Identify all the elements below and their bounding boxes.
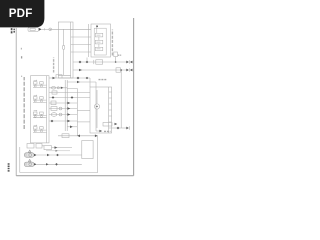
wire drop into motor box xyxy=(89,78,91,87)
wire y114.5 xyxy=(49,114,77,116)
label right of RB (vertical) xyxy=(111,30,113,56)
splice S1 xyxy=(49,28,52,31)
vertical drop right xyxy=(120,70,122,128)
wire y128 MB to border xyxy=(112,127,127,129)
arrow into wire xyxy=(39,28,42,31)
box B2 xyxy=(82,141,93,159)
ECU driver group 2 xyxy=(33,95,47,103)
ECU driver group 3 xyxy=(33,110,47,118)
connector pair CN2 xyxy=(126,69,129,72)
tick marks left margin xyxy=(20,48,22,50)
wire W7 y78 xyxy=(49,77,90,79)
micro text marks (shape-based to avoid subpixel fringing) xyxy=(9,28,122,172)
text near y131 xyxy=(104,130,111,132)
wire y82 xyxy=(67,81,96,83)
mid bus pair xyxy=(65,80,67,131)
border frame bottom xyxy=(16,175,133,177)
jog on W7 xyxy=(56,75,62,78)
wire main feed xyxy=(42,28,49,30)
ECU driver group 1 xyxy=(33,80,47,88)
component on W6 xyxy=(116,68,121,72)
component on W5 xyxy=(93,60,95,64)
connector C1 xyxy=(28,27,39,31)
relay box RB xyxy=(91,24,111,57)
ECU driver group 4 xyxy=(33,125,47,133)
page background xyxy=(0,0,149,198)
wires JB to relay box xyxy=(73,37,89,52)
dark label top-left under badge xyxy=(11,28,13,34)
wire y108 xyxy=(49,108,77,110)
diamond node xyxy=(79,61,82,64)
jog bus to mid vertical xyxy=(67,88,77,135)
border frame left xyxy=(15,28,17,176)
wire y121 xyxy=(49,120,77,122)
text near w7 xyxy=(99,79,107,81)
PDF badge xyxy=(0,0,44,27)
wire y103 xyxy=(49,102,77,104)
MB bottom internal connector xyxy=(103,123,112,127)
wire row y150.8 xyxy=(46,150,70,152)
motor box MB xyxy=(90,87,112,133)
junction box JB xyxy=(58,22,73,78)
wire W5 y62 xyxy=(73,61,126,63)
fuse F1 xyxy=(63,29,65,45)
wire y92.5 xyxy=(49,92,90,94)
text near CN stub xyxy=(118,54,121,56)
wire W6 y70 xyxy=(73,69,126,71)
ECU box xyxy=(31,76,50,143)
wire y97 xyxy=(49,97,90,99)
ground symbol 2 xyxy=(24,159,82,166)
wire y122.5 to MB xyxy=(77,121,90,123)
ground symbol 1 xyxy=(24,150,82,157)
pin tick xyxy=(44,28,46,30)
border frame right xyxy=(133,18,135,176)
node stub to relay box xyxy=(86,58,88,63)
wire vertical x96 xyxy=(95,82,97,131)
small boxes under ECU xyxy=(27,144,34,149)
label in JB (vertical) xyxy=(53,58,55,73)
dark label bottom-left xyxy=(8,163,10,171)
wire y87.8 xyxy=(49,87,67,89)
wire xyxy=(52,28,89,30)
arrow on y82 wire xyxy=(77,81,80,84)
arrow on W7 xyxy=(53,77,56,80)
connector box under ECU xyxy=(44,146,52,150)
inner frame bottom-left xyxy=(20,147,98,173)
connector pair CN1 xyxy=(126,61,129,64)
node D3 xyxy=(86,77,89,80)
wire y135.8 xyxy=(58,135,98,137)
svg-text:PDF: PDF xyxy=(9,7,33,20)
node D2 xyxy=(77,77,80,80)
stub component above W5 xyxy=(114,52,118,57)
arrow on W6 xyxy=(79,69,82,72)
label left of ECU (vertical) xyxy=(23,77,25,129)
wire y126.8 xyxy=(67,126,77,128)
wire y131 short w arrow xyxy=(96,130,99,132)
